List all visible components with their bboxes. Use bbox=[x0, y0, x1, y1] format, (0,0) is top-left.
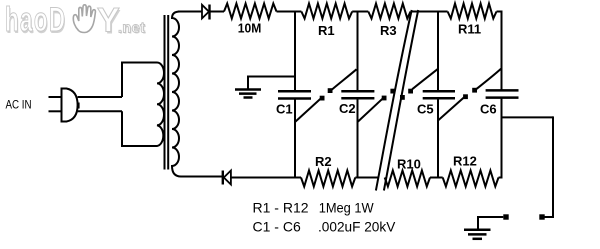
wire left electrode to ground bbox=[478, 216, 503, 218]
wire R10 to R12 bbox=[430, 177, 443, 179]
svg-text:R1 - R12: R1 - R12 bbox=[253, 200, 309, 216]
resistor R1 bbox=[301, 4, 352, 19]
wire diode to 10M bbox=[210, 11, 225, 13]
capacitor C1 bbox=[278, 90, 311, 93]
wire C2 down to bottom rail bbox=[357, 98, 359, 178]
wire output to right electrode bbox=[544, 216, 553, 218]
svg-text:.net: .net bbox=[118, 21, 145, 37]
wire node A down to C1 bbox=[294, 11, 296, 92]
wire top rail down to C2 bbox=[357, 11, 359, 92]
output gap left electrode bbox=[503, 214, 508, 219]
spark gap 3 upper electrode bbox=[408, 89, 413, 94]
wire R12 to bottom right corner bbox=[499, 177, 502, 179]
svg-text:C5: C5 bbox=[417, 102, 434, 117]
spark gap 4 upper electrode bbox=[472, 88, 477, 93]
spark gap 1 lower wire bbox=[295, 99, 321, 122]
wire 10M to node A bbox=[277, 11, 302, 13]
capacitor C6 bbox=[486, 89, 519, 92]
svg-text:C1 - C6: C1 - C6 bbox=[253, 218, 301, 234]
resistor R12 bbox=[443, 171, 499, 187]
cord wire bottom bbox=[78, 110, 122, 112]
spark gap 4 upper wire bbox=[476, 69, 501, 89]
capacitor C2 bbox=[341, 90, 374, 93]
svg-text:AC IN: AC IN bbox=[6, 97, 32, 111]
wire C5 down to bottom rail bbox=[437, 98, 439, 178]
spark gap 1 upper wire bbox=[332, 69, 357, 89]
svg-text:R12: R12 bbox=[453, 154, 477, 169]
transformer core line 1 bbox=[164, 15, 166, 170]
resistor R11 bbox=[448, 4, 497, 19]
svg-text:C2: C2 bbox=[339, 101, 356, 116]
svg-text:10M: 10M bbox=[238, 21, 261, 36]
output gap right electrode bbox=[539, 214, 544, 219]
wire R3 to R11 bbox=[411, 11, 448, 13]
svg-text:R11: R11 bbox=[458, 22, 481, 37]
spark gap 4 lower wire bbox=[438, 97, 464, 120]
svg-text:C1: C1 bbox=[276, 102, 293, 117]
wire R1 to R3 bbox=[352, 11, 368, 13]
wire output tee bbox=[502, 116, 554, 118]
spark gap 2 lower electrode bbox=[382, 96, 387, 101]
svg-text:Y: Y bbox=[97, 2, 120, 40]
resistor R10 bbox=[385, 171, 430, 187]
wire R11 to top right corner bbox=[497, 11, 502, 13]
svg-text:R10: R10 bbox=[397, 157, 421, 172]
wire R2 to break bbox=[355, 177, 378, 179]
cord wire top bbox=[78, 96, 122, 98]
transformer primary winding bbox=[122, 63, 164, 147]
wire top rail down to C6 bbox=[501, 11, 503, 91]
wire D2 to R2 bbox=[232, 177, 302, 179]
svg-text:haoD: haoD bbox=[5, 1, 66, 39]
plug cord nub bbox=[78, 103, 80, 109]
resistor 10M bbox=[224, 4, 277, 19]
svg-text:1Meg 1W: 1Meg 1W bbox=[319, 200, 375, 216]
spark gap 2 upper electrode bbox=[390, 89, 395, 94]
spark gap 3 lower electrode bbox=[400, 95, 405, 100]
svg-text:R3: R3 bbox=[380, 23, 397, 38]
svg-text:R1: R1 bbox=[318, 23, 335, 38]
break slash 2 bbox=[384, 10, 418, 191]
wire secondary bottom to diode D2 bbox=[181, 176, 222, 178]
wire C1 down to bottom rail bbox=[294, 99, 296, 179]
diode D1 bbox=[202, 5, 209, 19]
svg-text:C6: C6 bbox=[480, 102, 497, 117]
break slash 1 bbox=[376, 10, 412, 191]
ground symbol right bbox=[464, 229, 491, 232]
plug prong top bbox=[49, 96, 63, 98]
wire top rail down to C5 bbox=[437, 11, 439, 92]
spark gap 2 lower wire bbox=[358, 99, 383, 122]
plug prong bottom bbox=[49, 110, 63, 112]
transformer core line 2 bbox=[167, 15, 169, 170]
svg-text:R2: R2 bbox=[315, 154, 332, 169]
AC plug body bbox=[62, 89, 78, 122]
spark gap 4 lower electrode bbox=[463, 94, 468, 99]
wire ground tee bbox=[248, 76, 295, 78]
spark gap 1 lower electrode bbox=[320, 96, 325, 101]
resistor R3 bbox=[368, 4, 410, 19]
svg-text:.002uF 20kV: .002uF 20kV bbox=[318, 218, 396, 234]
ground symbol left bbox=[235, 88, 261, 91]
wire output down bbox=[552, 116, 554, 218]
hand glyph in logo bbox=[73, 5, 95, 33]
diode D2 bbox=[222, 171, 224, 185]
haoDIY.net watermark logo bbox=[5, 1, 146, 41]
resistor R2 bbox=[301, 171, 355, 187]
spark gap 3 upper wire bbox=[412, 69, 438, 89]
wire secondary top to diode bbox=[178, 11, 202, 13]
wire C6 down to bottom rail bbox=[501, 98, 503, 179]
capacitor C5 bbox=[423, 90, 455, 93]
transformer secondary winding bbox=[172, 12, 181, 177]
spark gap 1 upper electrode bbox=[328, 88, 333, 93]
